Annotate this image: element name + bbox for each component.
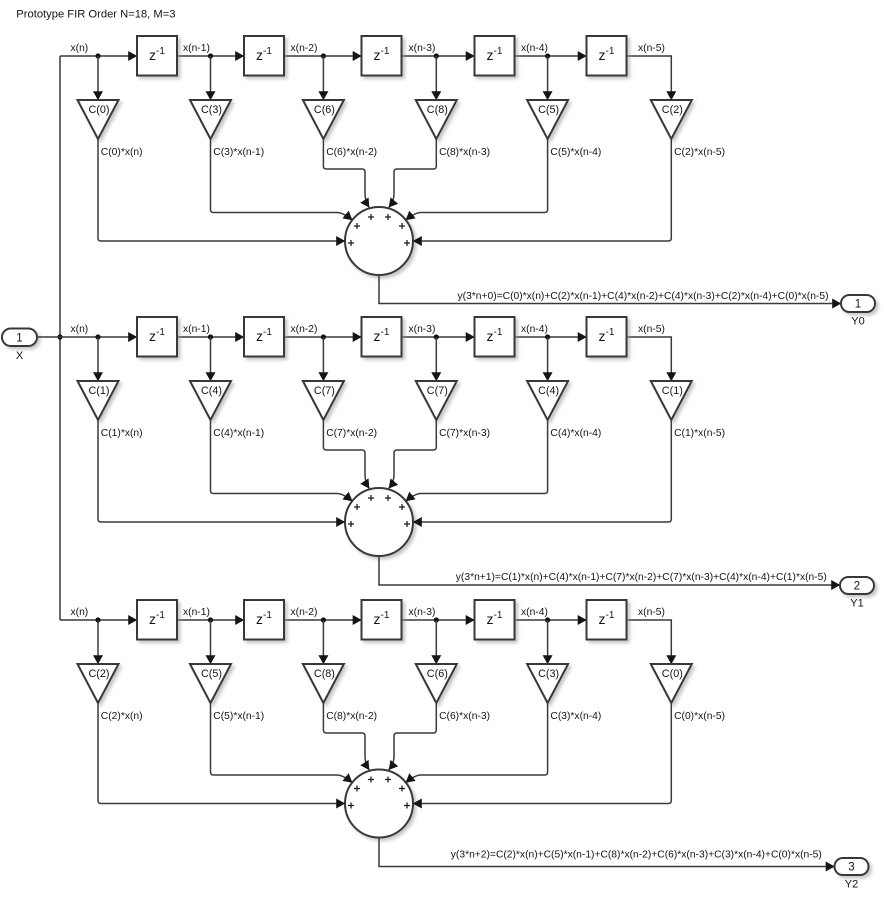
svg-text:x(n-4): x(n-4) [521, 324, 548, 335]
svg-text:C(2): C(2) [662, 104, 683, 116]
svg-text:C(7)*x(n-2): C(7)*x(n-2) [326, 428, 377, 439]
svg-text:x(n-1): x(n-1) [183, 43, 210, 54]
svg-text:Y0: Y0 [851, 316, 864, 328]
svg-text:C(8)*x(n-3): C(8)*x(n-3) [439, 147, 490, 158]
svg-text:C(0)*x(n-5): C(0)*x(n-5) [674, 711, 725, 722]
svg-text:C(8): C(8) [427, 104, 448, 116]
svg-text:x(n-3): x(n-3) [409, 607, 436, 618]
svg-text:C(1)*x(n): C(1)*x(n) [101, 428, 143, 439]
svg-text:C(8)*x(n-2): C(8)*x(n-2) [326, 711, 377, 722]
svg-text:C(6)*x(n-3): C(6)*x(n-3) [439, 711, 490, 722]
svg-text:x(n-2): x(n-2) [291, 43, 318, 54]
svg-text:1: 1 [16, 332, 22, 344]
svg-text:x(n): x(n) [71, 324, 89, 335]
svg-text:x(n-4): x(n-4) [521, 43, 548, 54]
svg-text:C(4): C(4) [538, 385, 559, 397]
svg-text:y(3*n+2)=C(2)*x(n)+C(5)*x(n-1): y(3*n+2)=C(2)*x(n)+C(5)*x(n-1)+C(8)*x(n-… [451, 849, 822, 860]
svg-text:C(1): C(1) [662, 385, 683, 397]
svg-text:C(3)*x(n-1): C(3)*x(n-1) [213, 147, 264, 158]
svg-text:C(0): C(0) [89, 104, 110, 116]
svg-text:x(n-2): x(n-2) [291, 324, 318, 335]
svg-text:2: 2 [854, 581, 860, 593]
svg-text:x(n): x(n) [71, 607, 89, 618]
svg-text:C(6): C(6) [314, 104, 335, 116]
svg-text:x(n-5): x(n-5) [638, 43, 665, 54]
svg-text:x(n-1): x(n-1) [183, 324, 210, 335]
svg-text:C(4)*x(n-4): C(4)*x(n-4) [550, 428, 601, 439]
svg-text:x(n-4): x(n-4) [521, 607, 548, 618]
svg-text:y(3*n+0)=C(0)*x(n)+C(2)*x(n-1): y(3*n+0)=C(0)*x(n)+C(2)*x(n-1)+C(4)*x(n-… [458, 291, 829, 302]
svg-text:C(5): C(5) [201, 668, 222, 680]
svg-text:C(6): C(6) [427, 668, 448, 680]
svg-text:C(3): C(3) [201, 104, 222, 116]
svg-text:C(5)*x(n-1): C(5)*x(n-1) [213, 711, 264, 722]
svg-text:x(n-5): x(n-5) [638, 324, 665, 335]
svg-text:x(n-2): x(n-2) [291, 607, 318, 618]
svg-text:C(2)*x(n): C(2)*x(n) [101, 711, 143, 722]
svg-text:C(2)*x(n-5): C(2)*x(n-5) [674, 147, 725, 158]
svg-text:C(0): C(0) [662, 668, 683, 680]
svg-text:C(1)*x(n-5): C(1)*x(n-5) [674, 428, 725, 439]
svg-text:Prototype FIR Order N=18, M=3: Prototype FIR Order N=18, M=3 [16, 9, 175, 21]
svg-text:C(3): C(3) [538, 668, 559, 680]
svg-text:C(7): C(7) [314, 385, 335, 397]
svg-text:C(8): C(8) [314, 668, 335, 680]
svg-text:C(4)*x(n-1): C(4)*x(n-1) [213, 428, 264, 439]
svg-text:y(3*n+1)=C(1)*x(n)+C(4)*x(n-1): y(3*n+1)=C(1)*x(n)+C(4)*x(n-1)+C(7)*x(n-… [456, 572, 827, 583]
svg-text:C(4): C(4) [201, 385, 222, 397]
svg-text:Y1: Y1 [850, 598, 863, 610]
svg-text:x(n-3): x(n-3) [409, 43, 436, 54]
svg-text:C(5)*x(n-4): C(5)*x(n-4) [550, 147, 601, 158]
svg-text:C(7): C(7) [427, 385, 448, 397]
svg-text:C(0)*x(n): C(0)*x(n) [101, 147, 143, 158]
svg-text:x(n-3): x(n-3) [409, 324, 436, 335]
svg-text:1: 1 [855, 299, 861, 311]
svg-text:3: 3 [848, 862, 854, 874]
svg-text:C(6)*x(n-2): C(6)*x(n-2) [326, 147, 377, 158]
svg-text:C(3)*x(n-4): C(3)*x(n-4) [550, 711, 601, 722]
svg-text:x(n-1): x(n-1) [183, 607, 210, 618]
svg-text:x(n-5): x(n-5) [638, 607, 665, 618]
svg-text:C(1): C(1) [89, 385, 110, 397]
svg-text:X: X [16, 350, 24, 362]
svg-text:x(n): x(n) [71, 43, 89, 54]
svg-text:C(2): C(2) [89, 668, 110, 680]
svg-text:C(5): C(5) [538, 104, 559, 116]
svg-text:C(7)*x(n-3): C(7)*x(n-3) [439, 428, 490, 439]
svg-text:Y2: Y2 [845, 879, 858, 891]
